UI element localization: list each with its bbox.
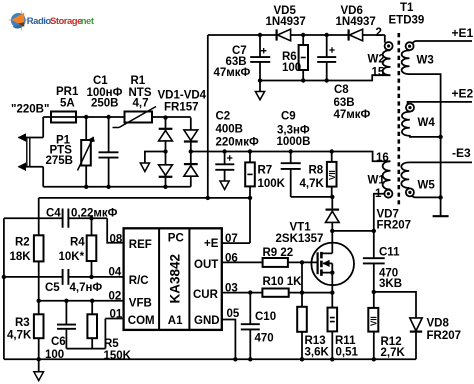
svg-text:R5: R5 [104,338,119,350]
svg-text:R1: R1 [131,75,146,87]
svg-text:PR1: PR1 [56,86,79,98]
svg-text:C11: C11 [379,247,400,259]
svg-text:3,6K: 3,6K [305,347,330,359]
svg-text:15: 15 [372,67,385,79]
svg-text:R9 22: R9 22 [263,247,294,259]
svg-text:R12: R12 [381,336,402,348]
svg-text:C4: C4 [46,208,61,220]
svg-text:C5: C5 [45,282,60,294]
svg-text:08: 08 [110,233,123,245]
svg-text:COM: COM [128,315,155,327]
svg-text:01: 01 [110,308,123,320]
svg-text:OUT: OUT [194,259,218,271]
svg-text:R/C: R/C [129,275,149,287]
svg-text:03: 03 [225,282,238,294]
svg-text:2SK1357: 2SK1357 [276,233,324,245]
svg-text:18K: 18K [10,251,32,263]
svg-text:100: 100 [282,62,301,74]
svg-text:100: 100 [45,349,64,361]
svg-text:R13: R13 [305,335,326,347]
svg-text:C8: C8 [334,84,349,96]
svg-text:100K: 100K [258,178,286,190]
svg-text:3,3нФ: 3,3нФ [277,124,310,136]
svg-text:GND: GND [194,315,220,327]
svg-text:150K: 150K [104,350,132,362]
svg-text:220мкФ: 220мкФ [216,137,259,149]
svg-text:63В: 63В [334,97,355,109]
svg-text:VFB: VFB [129,298,152,310]
svg-text:PC: PC [168,233,184,245]
svg-text:1N4937: 1N4937 [266,16,306,28]
svg-text:KA3842: KA3842 [168,254,183,304]
svg-text:C2: C2 [216,110,231,122]
svg-text:W1: W1 [368,175,386,187]
svg-text:VD8: VD8 [427,318,450,330]
svg-text:2: 2 [376,27,382,39]
svg-text:VII: VII [328,170,337,180]
svg-text:2,7K: 2,7K [381,347,406,359]
svg-text:FR207: FR207 [377,220,412,232]
svg-text:"220В": "220В" [11,104,49,116]
svg-text:REF: REF [129,239,152,251]
svg-text:02: 02 [109,291,122,303]
svg-text:Storage: Storage [50,16,82,27]
svg-text:+E: +E [204,238,219,250]
svg-text:C6: C6 [51,336,66,348]
svg-text:1: 1 [375,188,382,200]
svg-text:5A: 5A [60,98,75,110]
svg-text:R8: R8 [309,164,324,176]
svg-text:VII: VII [370,316,379,326]
svg-text:W5: W5 [418,180,436,192]
svg-text:R4: R4 [70,237,85,249]
svg-text:VT1: VT1 [290,222,312,234]
svg-text:4,7нФ: 4,7нФ [70,282,103,294]
svg-text:400В: 400В [216,124,244,136]
svg-text:1000В: 1000В [277,136,311,148]
svg-text:+E1: +E1 [452,26,474,40]
svg-text:0,51: 0,51 [336,347,359,359]
svg-text:A1: A1 [168,315,183,327]
svg-text:R7: R7 [258,164,273,176]
svg-text:+E2: +E2 [452,87,474,101]
svg-text:05: 05 [227,308,240,320]
svg-text:R3: R3 [15,317,30,329]
svg-text:10K*: 10K* [59,251,85,263]
svg-text:4,7K: 4,7K [300,178,325,190]
svg-text:T1: T1 [400,2,414,14]
svg-text:0,22мкФ: 0,22мкФ [71,208,118,220]
svg-text:1N4937: 1N4937 [336,16,376,28]
svg-text:04: 04 [109,267,122,279]
svg-text:250В: 250В [91,98,119,110]
svg-text:R11: R11 [335,335,356,347]
svg-text:06: 06 [225,252,238,264]
svg-text:07: 07 [225,233,238,245]
svg-text:R2: R2 [15,237,30,249]
svg-text:4,7K: 4,7K [7,330,32,342]
svg-text:47мкФ: 47мкФ [334,109,371,121]
svg-text:W4: W4 [418,117,436,129]
svg-text:C1: C1 [93,75,108,87]
svg-text:4,7: 4,7 [133,98,149,110]
svg-text:-E3: -E3 [452,146,471,160]
svg-text:47мкФ: 47мкФ [214,67,251,79]
svg-text:FR207: FR207 [427,330,462,342]
svg-text:W3: W3 [417,55,434,67]
svg-text:C10: C10 [255,311,276,323]
svg-text:.net: .net [79,16,95,27]
svg-text:Radio: Radio [27,16,52,27]
svg-text:275В: 275В [46,155,74,167]
svg-text:C9: C9 [281,111,296,123]
svg-text:16: 16 [376,152,389,164]
svg-text:R10 1K: R10 1K [263,276,303,288]
svg-text:470: 470 [255,333,274,345]
svg-text:ETD39: ETD39 [389,15,425,27]
svg-text:CUR: CUR [193,289,219,301]
svg-text:VD1-VD4: VD1-VD4 [158,90,207,102]
svg-text:FR157: FR157 [164,102,199,114]
svg-text:3KB: 3KB [379,278,402,290]
svg-text:W2: W2 [368,54,385,66]
